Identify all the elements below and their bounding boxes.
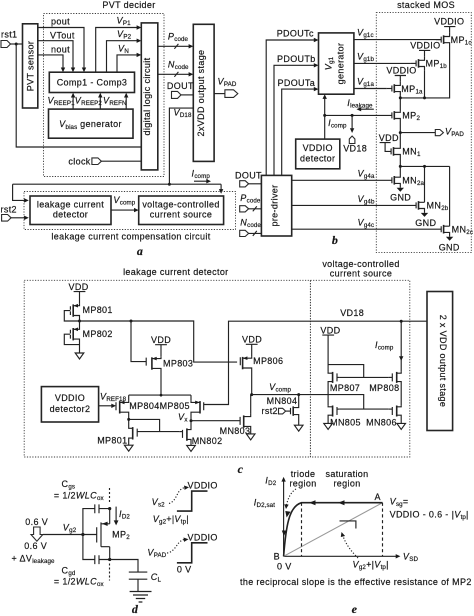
transistor MP806 [240,356,251,394]
wire Vx to MN803 gate [191,420,240,422]
port VPAD pentagon [435,130,443,136]
trajectory arrowheads on plateau [309,500,316,505]
wire DOUT [249,183,262,185]
node junction drain bus [399,96,402,99]
detector dashed box [24,280,310,457]
svg-text:MP804MP805: MP804MP805 [129,401,190,411]
wire rst1 to PVT sensor [11,43,23,45]
transistor MN2c [441,226,449,237]
svg-text:stacked MOS: stacked MOS [397,0,455,10]
trajectory arrowheads on triode part [285,511,290,518]
node junction Vx [190,419,193,422]
wire Pcode bus [158,45,190,47]
ground MP802 [75,353,84,359]
block 2 x VDD output stage [427,292,453,431]
node junction Icomp [323,114,326,117]
svg-text:MN806: MN806 [366,418,397,428]
block pre-driver [261,175,291,236]
capacitor Cgd [95,555,110,564]
svg-text:PVT decider: PVT decider [102,0,155,10]
block PVT sensor [23,24,38,108]
svg-text:Comp1 - Comp3: Comp1 - Comp3 [57,78,128,88]
ground MN806 [397,423,406,429]
svg-text:pout: pout [51,17,70,27]
wire Vg1c [354,39,441,41]
capacitor CL [129,572,148,591]
ground MN805 [324,423,333,429]
wire Vg1b [354,62,411,64]
dashed vertical at A [382,503,384,557]
ground MN802 [187,445,196,451]
svg-text:leakage current detector: leakage current detector [123,267,228,277]
ground MN2a [397,188,404,192]
wire Icomp riser [400,321,402,371]
wire divider node [80,321,238,362]
wire DOUT [181,94,193,96]
wire VREEP1 arrow [72,97,74,110]
svg-text:DOUT: DOUT [235,171,262,181]
svg-text:pre-driver: pre-driver [270,184,280,226]
slope step indicator [340,521,356,529]
svg-text:VD18: VD18 [340,308,364,318]
svg-text:GND: GND [439,242,460,252]
svg-text:current source: current source [150,210,212,220]
wire MP805 gate riser VD18 [204,321,427,404]
svg-text:0 V: 0 V [277,562,292,572]
svg-text:triode: triode [291,469,316,479]
svg-text:rst1: rst1 [1,30,17,40]
svg-text:PVT sensor: PVT sensor [26,41,36,91]
wire Vcomp [252,395,389,410]
transistor MN806 [392,405,401,423]
svg-text:B: B [274,552,280,562]
dotted arrow Vg2+|Vtp| to slope [343,536,358,558]
svg-text:VD18: VD18 [343,143,367,153]
svg-text:detector2: detector2 [50,404,91,414]
block VDDIO detector [296,139,340,169]
dotted arrow triode region [287,489,297,505]
svg-text:MP802: MP802 [83,329,113,339]
transistor MP1b [416,56,424,71]
transistor MN803 [240,414,251,434]
transistor MN1 [391,133,400,167]
wire pout [38,28,84,70]
svg-text:MN804: MN804 [267,396,298,406]
block Vbias generator [49,109,134,138]
wire VD18 branch arrow [351,115,353,129]
svg-text:VDD: VDD [69,282,89,292]
svg-text:rst2: rst2 [262,406,278,416]
svg-text:current source: current source [330,269,392,279]
node junction rst1 [15,43,18,46]
wire Vcomp [111,209,135,211]
svg-text:0.6 V: 0.6 V [24,541,47,551]
wire MP804 drain mirror tap [129,419,180,431]
wire VP1 [96,28,138,73]
wire VREF18 [99,405,113,407]
node junction Vcomp [250,393,253,396]
svg-text:a: a [137,244,143,258]
svg-text:MP807: MP807 [330,383,360,393]
svg-text:VDDIO: VDDIO [386,66,416,76]
svg-text:DOUT: DOUT [167,81,194,91]
node junction Vg2 [81,533,84,536]
svg-text:VDD: VDD [242,334,262,344]
wire Icomp riser to Vg1 generator [324,98,326,140]
trajectory curve [284,503,383,557]
svg-text:VDDIO - 0.6 - |Vtp|: VDDIO - 0.6 - |Vtp| [390,510,469,522]
node junction MP803 gate tap [130,320,133,323]
wire Pcode bus [249,206,262,211]
svg-text:MN803: MN803 [220,426,251,436]
ground MN2c [446,237,453,241]
svg-text:VDDIO: VDDIO [303,143,333,153]
svg-text:VDDIO: VDDIO [188,533,218,543]
block digital logic circuit [141,23,158,170]
wire VP2 [107,41,139,72]
wire VN [117,55,138,72]
wire PDOUTb [274,65,315,175]
transistor MP2 (panel d) [97,509,110,560]
wire Vg1a [354,88,387,90]
dotted arrow VPAD [167,540,185,554]
svg-text:MN805: MN805 [330,418,361,428]
svg-text:voltage-controlled: voltage-controlled [142,200,219,210]
wire MN source bus [400,166,449,226]
svg-text:VDDIO: VDDIO [188,481,218,491]
wire VTout [38,41,73,69]
node junction MN bus [399,165,402,168]
transistor MN801 (labeled MP801) [129,427,138,446]
wire VD18 [169,108,193,184]
svg-text:VDDIO: VDDIO [410,40,440,50]
transistor MP802 (diode connected) [70,321,79,353]
wire pad node [110,560,138,573]
block 2xVDD output stage [193,24,214,161]
svg-text:VDD: VDD [379,133,399,143]
current ID2 arrow [115,507,117,522]
svg-text:VDDIO: VDDIO [434,17,464,27]
wire PDOUTc [266,40,315,176]
svg-text:2xVDD output stage: 2xVDD output stage [196,50,206,137]
wire MP803 gate [131,321,146,362]
port rst1 pin symbol [1,41,11,48]
svg-text:PDOUTb: PDOUTb [277,54,316,64]
transistor MN2b [416,202,424,213]
svg-text:PDOUTa: PDOUTa [278,78,316,88]
ground MN2b [421,213,428,217]
svg-text:0.6 V: 0.6 V [25,517,48,527]
svg-text:= 1/2WLCox: = 1/2WLCox [54,577,105,589]
svg-text:2 x VDD output stage: 2 x VDD output stage [438,315,448,408]
axis ID2 (y) [283,480,285,556]
node junction MP801 drain [78,320,81,323]
transistor MP804 [116,401,129,427]
svg-text:detector: detector [53,210,88,220]
block VDDIO detector2 [41,387,98,422]
block leakage current detector [30,196,111,225]
svg-text:b: b [332,233,338,247]
transistor MN804 [291,395,299,426]
transistor MP1a [392,81,400,96]
transistor MP808 [392,372,401,406]
PVT decider dashed box [44,14,165,177]
svg-text:0 V: 0 V [177,565,192,575]
wire MP1 drain bus [400,47,449,112]
svg-text:digital logic circuit: digital logic circuit [142,57,152,135]
svg-text:the reciprocal slope is the ef: the reciprocal slope is the effective re… [240,577,472,587]
transistor MN802 (mirrored) [183,421,192,446]
capacitor Cgs [95,504,110,513]
svg-text:GND: GND [415,218,436,228]
wire diff pair source rail [129,395,191,401]
hollow arrow down [31,527,43,541]
block voltage-controlled current source [139,196,224,225]
svg-text:leakage current compensation c: leakage current compensation circuit [51,232,210,242]
transistor MP805 (mirrored) [191,401,204,421]
dotted arrow Vs2 [169,488,186,504]
ground MN803 [246,434,255,440]
transistor MN2a [392,166,400,187]
transistor MP807 (mirrored right) [328,372,337,406]
dashed vertical triode boundary [301,503,303,557]
node junction Cgs right [108,507,111,510]
block Vg1 generator [319,33,354,94]
svg-text:= 1/2WLCox: = 1/2WLCox [54,490,105,502]
svg-text:saturation: saturation [325,469,368,479]
svg-text:generator: generator [336,43,346,85]
wire PMOS mirror rail [328,365,389,378]
node junction Cgd right [108,558,111,561]
svg-text:VTout: VTout [50,31,75,41]
wire VPAD [400,132,435,134]
svg-text:region: region [289,479,316,489]
transistor MP803 [146,357,161,395]
svg-text:VDD: VDD [320,325,340,335]
transistor MN805 (mirrored right) [328,405,337,423]
node junction MN804 drain [297,393,300,396]
wire MN803 drain riser [250,395,252,414]
transistor MP801 (diode connected) [70,304,79,321]
ground earth CL [130,592,152,603]
svg-text:rst2: rst2 [1,205,17,215]
current source dashed box [310,280,409,457]
block Comp1 - Comp3 [49,72,134,92]
wire VREFN arrow [125,97,127,110]
wire rst2 [11,217,25,219]
wire VPAD [214,93,225,95]
svg-text:e: e [352,602,358,616]
wire VD18 left branch into detector [13,184,26,200]
svg-text:VDDIO: VDDIO [55,393,85,403]
node junction VD18 [168,183,171,186]
wire PDOUTa [282,89,315,175]
svg-text:MP801: MP801 [83,305,113,315]
svg-text:MP803: MP803 [163,358,193,368]
stacked MOS dashed box [376,13,471,253]
wire VREEP2 arrow [99,97,101,110]
ground MN801 [124,445,133,451]
node junction tail [160,394,163,397]
port VD18 terminal [349,136,355,144]
svg-text:nout: nout [51,45,70,55]
svg-text:MN802: MN802 [192,436,223,446]
svg-text:GND: GND [390,193,411,203]
svg-text:A: A [375,492,381,502]
svg-text:voltage-controlled: voltage-controlled [322,259,399,269]
svg-text:detector: detector [300,154,335,164]
node junction VPAD [399,131,402,134]
wire gate to Cgs [83,509,95,535]
svg-text:c: c [238,462,244,476]
svg-text:PDOUTc: PDOUTc [277,29,314,39]
svg-text:MP801: MP801 [97,436,127,446]
wire Vg2 [43,534,97,536]
leakage current compensation dashed box [24,192,236,230]
axis VSD (x) [284,555,398,557]
svg-text:MP808: MP808 [369,383,399,393]
svg-text:d: d [132,602,139,616]
wire clock [101,160,141,162]
wire rst1 down-right to digital logic circuit [16,44,141,147]
ground MN804 [294,425,303,431]
transistor MP2 [392,112,400,133]
svg-text:region: region [333,479,360,489]
wire VD18 horizontal [13,184,222,190]
wire nout [38,55,63,69]
wire Ncode bus [158,73,190,75]
svg-text:MP806: MP806 [253,356,283,366]
svg-text:clock: clock [68,156,90,166]
dashed node extensions [109,488,111,504]
wire gate to Cgd [83,535,95,560]
svg-text:leakage current: leakage current [37,200,104,210]
transistor MP1c [441,32,449,47]
svg-text:VDD: VDD [151,335,171,345]
grey load line B to A [284,503,383,557]
wire Ncode bus [249,231,262,236]
